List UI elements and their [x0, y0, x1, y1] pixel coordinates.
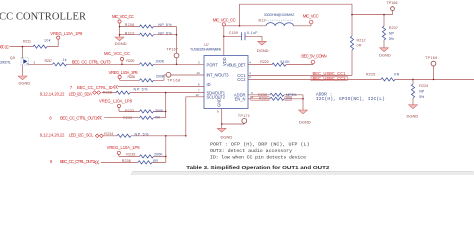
- svg-text:0R: 0R: [286, 97, 291, 101]
- svg-text:R220: R220: [126, 59, 134, 63]
- svg-text:GND: GND: [217, 98, 222, 107]
- svg-text:ID: ID: [207, 82, 211, 87]
- svg-text:DGND: DGND: [299, 119, 311, 124]
- svg-text:DGND: DGND: [19, 81, 31, 86]
- svg-text:CC2: CC2: [237, 77, 246, 82]
- svg-text:B12: B12: [259, 18, 266, 22]
- svg-text:0R: 0R: [153, 159, 158, 163]
- svg-text:7002KDTL: 7002KDTL: [0, 61, 11, 65]
- svg-text:MIC_VCC_CC: MIC_VCC_CC: [112, 14, 134, 19]
- svg-text:5%: 5%: [419, 95, 425, 99]
- svg-text:NP 5%: NP 5%: [134, 88, 149, 92]
- svg-text:INT_N/OUT3: INT_N/OUT3: [207, 73, 230, 78]
- svg-text:BEC_USBC_CC2: BEC_USBC_CC2: [313, 76, 347, 81]
- svg-text:NP: NP: [389, 31, 395, 35]
- svg-text:R207: R207: [389, 26, 398, 30]
- svg-text:R228: R228: [103, 90, 112, 94]
- svg-text:CC CONTROLLER: CC CONTROLLER: [0, 12, 86, 23]
- svg-text:12: 12: [197, 71, 201, 75]
- svg-text:CC: CC: [5, 44, 10, 49]
- svg-text:VBUS_DET: VBUS_DET: [227, 62, 246, 67]
- svg-text:R225: R225: [366, 73, 375, 77]
- svg-text:TP166: TP166: [387, 1, 398, 5]
- svg-text:10: 10: [196, 93, 200, 97]
- svg-text:VREG_L10A_1P8: VREG_L10A_1P8: [99, 99, 133, 104]
- svg-text:0R: 0R: [394, 73, 399, 77]
- svg-text:200K: 200K: [154, 153, 163, 157]
- svg-text:R226: R226: [128, 75, 136, 79]
- svg-text:200K: 200K: [156, 60, 165, 64]
- svg-text:200K: 200K: [156, 75, 165, 79]
- svg-text:R231: R231: [259, 97, 268, 101]
- svg-text:330OHM@100MHZ: 330OHM@100MHZ: [264, 13, 295, 17]
- svg-text:R222: R222: [260, 60, 269, 64]
- svg-text:DGND: DGND: [221, 134, 233, 139]
- svg-text:NP: NP: [419, 89, 425, 93]
- svg-text:R232: R232: [125, 109, 134, 113]
- svg-text:R211: R211: [23, 39, 31, 43]
- svg-text:TUSB320HAIRWBR: TUSB320HAIRWBR: [190, 47, 220, 51]
- svg-text:EN_N: EN_N: [235, 96, 246, 101]
- svg-text:9,12,14,20,22: 9,12,14,20,22: [40, 132, 65, 137]
- svg-text:BEC_5V_CONN: BEC_5V_CONN: [301, 53, 326, 58]
- svg-text:910K: 910K: [280, 60, 290, 64]
- svg-text:MIC_VCC_CC: MIC_VCC_CC: [213, 18, 236, 23]
- svg-text:BEC_CC_CTRL_OUT3: BEC_CC_CTRL_OUT3: [72, 59, 111, 64]
- svg-text:BEC_CC_CTRL_OUT2: BEC_CC_CTRL_OUT2: [60, 159, 96, 164]
- svg-text:TP167: TP167: [166, 47, 178, 51]
- svg-text:DGND: DGND: [407, 114, 419, 119]
- svg-text:OUT3: detect audio accessory: OUT3: detect audio accessory: [210, 148, 292, 154]
- svg-text:R208: R208: [125, 23, 135, 27]
- svg-text:R229: R229: [419, 84, 428, 88]
- svg-text:R210: R210: [125, 31, 135, 35]
- svg-text:1k: 1k: [63, 58, 67, 62]
- svg-text:C159: C159: [229, 31, 238, 35]
- svg-text:Table 3. Simplified Operation: Table 3. Simplified Operation for OUT1 a…: [186, 165, 329, 171]
- svg-text:R236: R236: [122, 159, 131, 163]
- svg-text:DGND: DGND: [257, 48, 269, 53]
- svg-text:I2C(H), GPIO(NC), I2C(L): I2C(H), GPIO(NC), I2C(L): [316, 96, 385, 102]
- svg-text:TP169: TP169: [425, 56, 437, 60]
- svg-text:PORT: PORT: [207, 62, 219, 67]
- svg-text:VDD: VDD: [222, 57, 227, 66]
- svg-text:NP 5%: NP 5%: [135, 133, 150, 137]
- svg-text:10k: 10k: [44, 39, 51, 43]
- svg-text:NP 5%: NP 5%: [158, 23, 172, 27]
- svg-text:PORT : DFP (H), DRP (NC), UFP: PORT : DFP (H), DRP (NC), UFP (L): [210, 141, 310, 147]
- svg-text:200K: 200K: [155, 109, 164, 113]
- svg-text:R217: R217: [45, 59, 53, 63]
- svg-text:DGND: DGND: [379, 52, 391, 57]
- svg-text:0.1uF: 0.1uF: [247, 31, 258, 35]
- svg-text:0R: 0R: [357, 44, 362, 48]
- svg-text:5%: 5%: [389, 37, 395, 41]
- svg-text:ID: low when CC pin detects de: ID: low when CC pin detects device: [210, 154, 306, 160]
- svg-text:MIC_VCC_CC: MIC_VCC_CC: [104, 51, 130, 56]
- svg-text:R212: R212: [357, 38, 366, 42]
- svg-text:R234: R234: [104, 132, 113, 136]
- svg-text:VREG_L10A_1P8: VREG_L10A_1P8: [50, 31, 83, 36]
- svg-text:LED_I2C_SDA: LED_I2C_SDA: [69, 91, 93, 96]
- svg-text:MIC_VCC: MIC_VCC: [303, 13, 319, 18]
- svg-text:DGND: DGND: [115, 41, 127, 46]
- svg-text:VREG_L10A_1P8: VREG_L10A_1P8: [109, 70, 139, 75]
- svg-text:BEC_CC_CTRL_ID: BEC_CC_CTRL_ID: [77, 85, 113, 90]
- svg-text:R235: R235: [126, 153, 135, 157]
- svg-text:VREG_L10A_1P8: VREG_L10A_1P8: [107, 145, 141, 150]
- svg-text:0R: 0R: [155, 116, 160, 120]
- svg-text:R233: R233: [123, 116, 132, 120]
- svg-text:TP171: TP171: [238, 114, 250, 118]
- svg-text:BEC_CC_CTRL_OUT1: BEC_CC_CTRL_OUT1: [60, 116, 98, 121]
- svg-text:LED_I2C_SCL: LED_I2C_SCL: [69, 132, 94, 137]
- svg-text:TP168: TP168: [167, 78, 180, 82]
- svg-text:NP 5%: NP 5%: [158, 31, 172, 35]
- svg-text:9,12,14,20,22: 9,12,14,20,22: [40, 91, 65, 96]
